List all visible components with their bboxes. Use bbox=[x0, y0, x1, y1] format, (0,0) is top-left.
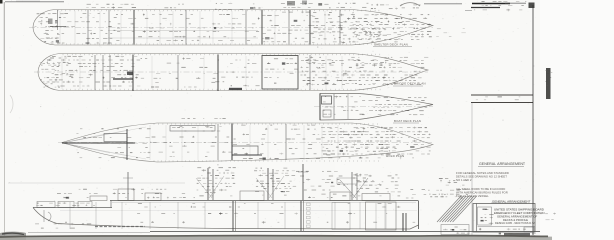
top border line left segment bbox=[5, 1, 64, 3]
deck band marks bbox=[138, 203, 142, 205]
bow area vertical pair bbox=[402, 213, 404, 231]
small drawings above profile right bbox=[337, 178, 357, 184]
title block bottom row bbox=[479, 228, 481, 230]
plan 2 bulkhead lines bbox=[61, 56, 63, 89]
svg-text:BRIDGE DECK PLAN: BRIDGE DECK PLAN bbox=[394, 82, 426, 86]
deck plan 2 (upper deck) centerline bbox=[34, 71, 428, 73]
deck plan 1 (shelter deck) hull outline bbox=[33, 10, 433, 46]
faint fold mark left bbox=[10, 95, 13, 113]
svg-text:DECKS & PROFILE: DECKS & PROFILE bbox=[503, 218, 528, 222]
revision strip lines bbox=[471, 94, 533, 96]
profile midship deckhouses bbox=[90, 196, 107, 201]
profile keel line bbox=[57, 224, 419, 230]
profile mainmast bbox=[302, 164, 304, 200]
right sheet border line bbox=[532, 5, 534, 235]
deck plan 4 (hold plan) hull outline bbox=[62, 123, 433, 162]
plan 1 bow dark stair blob bbox=[48, 19, 53, 25]
plan 2 dark tick bar bbox=[229, 88, 242, 90]
bottom scanner shadow band bbox=[0, 236, 552, 240]
profile engine casing below deck bbox=[366, 202, 397, 230]
top-left corner scan mark bbox=[0, 0, 3, 4]
plan 1 mid passage lines bbox=[108, 30, 258, 32]
profile rudder/propeller marks bbox=[44, 210, 51, 222]
title block outer box bbox=[473, 204, 535, 233]
drawing number dark blob bbox=[504, 233, 530, 236]
svg-text:HOLD PLAN: HOLD PLAN bbox=[386, 154, 404, 158]
profile overhead rigging line (faint) bbox=[8, 182, 185, 184]
plan 4 bulkhead lines bbox=[149, 125, 151, 160]
plan 3 interior detail rows bbox=[325, 96, 326, 98]
page speckle noise bbox=[381, 43, 382, 45]
plan 1 interior detail rows bbox=[40, 13, 44, 15]
plan 4 label row above top edge bbox=[182, 118, 186, 120]
header text strip above plan 1 bbox=[87, 3, 91, 5]
top-right revision header lines bbox=[472, 3, 510, 5]
deck plan 2 (upper deck) frame ticks along edges bbox=[62, 54, 64, 55]
profile tween deck line bbox=[60, 210, 417, 212]
plan 2 midship deckhouse rectangle bbox=[262, 56, 298, 90]
deck plan 2 (upper deck) hull outline bbox=[38, 54, 428, 91]
profile main sheer line bbox=[110, 200, 418, 202]
deck plan 4 (hold plan) centerline bbox=[58, 142, 433, 144]
inner margin column line bbox=[471, 103, 473, 235]
plan 1 bulkhead lines bbox=[59, 11, 61, 44]
left sheet edge line bbox=[4, 2, 6, 236]
plan 2 interior detail rows bbox=[52, 55, 56, 57]
svg-text:DESIGN 1095 - 9400 TONS D.W.: DESIGN 1095 - 9400 TONS D.W. bbox=[495, 221, 535, 225]
plan 4 interior detail rows bbox=[80, 128, 82, 130]
profile hold bulkheads bbox=[69, 202, 71, 229]
profile foremast bbox=[127, 172, 129, 200]
stamp box under diagonal bbox=[441, 225, 469, 235]
bottom-left corner dark smudge bbox=[0, 232, 26, 240]
plan 3 centerline bbox=[314, 106, 433, 108]
keel dashed detail bbox=[95, 226, 145, 228]
profile stern counter curve bbox=[33, 208, 57, 224]
profile kingpost pair 2 with derricks bbox=[267, 168, 269, 200]
svg-text:BOAT DECK PLAN: BOAT DECK PLAN bbox=[394, 119, 421, 123]
profile rigging smudge clusters bbox=[197, 167, 201, 169]
deck plan 4 (hold plan) frame ticks along edges bbox=[153, 123, 155, 124]
plan 4 bow diagonal frame lines bbox=[62, 137, 92, 143]
right small text blocks bbox=[439, 178, 443, 180]
title block approval sub-box bbox=[478, 207, 492, 225]
svg-text:GENERAL ARRANGEMENT: GENERAL ARRANGEMENT bbox=[479, 162, 526, 166]
deck plan 1 (shelter deck) frame ticks along edges bbox=[57, 10, 59, 11]
deck plan 3 (boat deck, aft portion) hull outline bbox=[320, 94, 433, 121]
sheet number "38" top-right bbox=[529, 3, 535, 9]
faint bleed text right of border bbox=[540, 213, 542, 215]
svg-text:NO 1 AND 2: NO 1 AND 2 bbox=[456, 178, 472, 182]
profile hold labels bbox=[137, 213, 140, 215]
bottom sheet border line bbox=[150, 231, 540, 233]
right margin microfilm bar bbox=[546, 68, 551, 99]
plan 4 mid rectangles bbox=[170, 126, 215, 132]
profile aft kingposts bbox=[351, 172, 353, 200]
plan 2 dark horizontal passage line bbox=[113, 78, 133, 80]
diagonal hatched stamp bbox=[437, 196, 461, 222]
profile kingpost pair 1 with derricks bbox=[207, 168, 209, 200]
profile ladder boxes x307 bbox=[307, 203, 311, 206]
profile bow stem bbox=[418, 201, 420, 230]
svg-text:SHELTER DECK PLAN: SHELTER DECK PLAN bbox=[374, 43, 408, 47]
deck plan 1 (shelter deck) centerline bbox=[29, 26, 433, 28]
profile stern deckhouse boxes on poop bbox=[37, 202, 55, 208]
profile poop deck line bbox=[33, 207, 112, 209]
plan 4 bow strong horizontal and boxes bbox=[62, 142, 135, 144]
